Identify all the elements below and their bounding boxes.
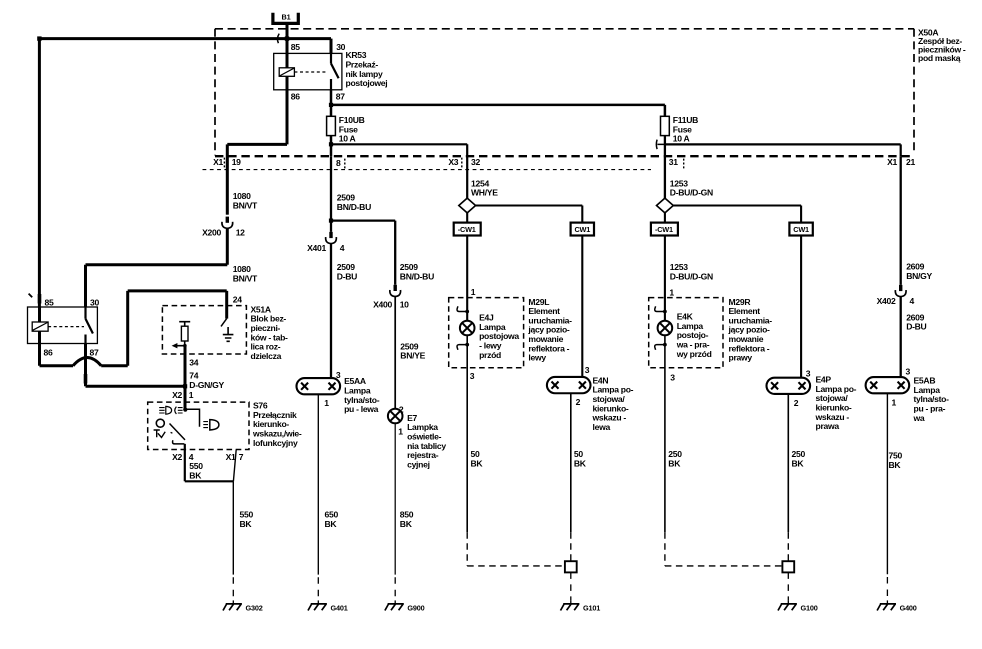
svg-text:G900: G900	[407, 604, 424, 613]
ground G900	[385, 604, 425, 613]
connector CW1 (left)	[571, 223, 594, 236]
svg-text:550BK: 550BK	[240, 510, 254, 529]
lamp E4K parking front right	[655, 306, 712, 382]
svg-text:85: 85	[291, 42, 300, 52]
svg-text:21: 21	[906, 157, 915, 167]
svg-text:1253D-BU/D-GN: 1253D-BU/D-GN	[670, 262, 713, 281]
tap hook at F11UB output	[656, 140, 665, 150]
svg-text:KR53Przekaź-nik lampypostojowe: KR53Przekaź-nik lampypostojowej	[346, 50, 388, 88]
svg-text:1: 1	[189, 390, 194, 400]
svg-text:S76Przełącznikkierunko-wskazu,: S76Przełącznikkierunko-wskazu,/wie-lofun…	[252, 401, 302, 448]
svg-text:2: 2	[794, 398, 799, 408]
svg-text:74D-GN/GY: 74D-GN/GY	[189, 371, 224, 390]
wire 2609 BN/GY X1/21 to X402	[901, 156, 933, 285]
boundary pin label X1 19	[213, 157, 241, 169]
connector -CW1 (right)	[651, 213, 678, 236]
wire: left relay 87 to circuit 74 node	[86, 344, 186, 387]
wire 250 BK E4P to G100	[788, 394, 805, 561]
wire circuit 74 D-GN/GY X51A pin 34 to S76	[172, 346, 224, 410]
svg-text:X1: X1	[226, 452, 236, 462]
svg-text:1080BN/VT: 1080BN/VT	[233, 264, 258, 283]
svg-text:X2: X2	[172, 390, 182, 400]
tick mark left of pin 85	[29, 294, 33, 298]
svg-text:86: 86	[291, 92, 300, 102]
wire 850 BK E7 to G900	[395, 423, 414, 604]
module M29R headlamp levelling right	[649, 297, 773, 368]
ground G100	[778, 572, 818, 612]
svg-text:550BK: 550BK	[189, 461, 203, 480]
lamp E5AA tail/stop left	[297, 376, 380, 414]
svg-text:250BK: 250BK	[668, 449, 682, 468]
svg-text:E4JLampapostojowa- lewyprzód: E4JLampapostojowa- lewyprzód	[479, 313, 519, 360]
svg-text:2609BN/GY: 2609BN/GY	[906, 262, 932, 281]
relay (parking lamp relay, left)	[28, 297, 100, 357]
svg-text:X50AZespół bez-pieczników -pod: X50AZespół bez-pieczników -pod maską	[918, 27, 966, 63]
lamp E4J parking front left	[457, 306, 519, 381]
lamp E7 licence plate light	[388, 409, 446, 470]
svg-text:19: 19	[232, 157, 241, 167]
wire 2609 D-BU X402 to E5AB	[901, 297, 927, 377]
wire: left relay 86 to X51A pin 24 (hops over 87)	[40, 291, 227, 366]
svg-text:E4NLampa po-stojowa/kierunko-w: E4NLampa po-stojowa/kierunko-wskazu -lew…	[592, 375, 634, 432]
svg-text:2509BN/YE: 2509BN/YE	[400, 341, 425, 360]
svg-text:F11UBFuse10 A: F11UBFuse10 A	[673, 115, 698, 144]
svg-text:30: 30	[336, 42, 345, 52]
svg-text:1254WH/YE: 1254WH/YE	[471, 178, 498, 197]
lamp E4P parking/turn right	[767, 375, 857, 432]
svg-text:86: 86	[44, 347, 53, 357]
svg-text:1: 1	[892, 397, 897, 407]
junction: 87 bus node	[329, 103, 333, 107]
svg-text:31: 31	[669, 157, 678, 167]
wire 2509 D-BU X401 to E5AA	[331, 244, 357, 380]
wire 750 BK E5AB to G400	[887, 393, 902, 604]
lamp E5AB tail/stop right	[866, 376, 950, 423]
svg-text:X400: X400	[373, 299, 392, 309]
svg-text:1: 1	[669, 287, 674, 297]
svg-text:3: 3	[585, 365, 590, 375]
wire 1253 D-BU/D-GN -CW1 to E4K pin 1	[665, 236, 713, 321]
svg-text:250BK: 250BK	[792, 449, 806, 468]
junction: B1 bus node	[285, 36, 289, 40]
svg-text:B1: B1	[282, 13, 291, 22]
wire: KR53 pin 86 to X1 pin 19	[227, 90, 287, 215]
fuse F11UB	[661, 115, 699, 144]
wire: F11UB output with branch to X1/21	[665, 136, 901, 199]
svg-text:G400: G400	[900, 604, 917, 613]
boundary pin label X3 32	[448, 157, 480, 169]
connector CW1 (right)	[789, 223, 812, 236]
svg-text:1: 1	[471, 287, 476, 297]
splice diamond (left)	[459, 198, 476, 213]
svg-text:34: 34	[189, 357, 198, 367]
svg-text:G401: G401	[331, 604, 348, 613]
connector stub at left relay pin 85	[38, 294, 42, 304]
connector X400	[373, 285, 409, 309]
switch S76 (turn signal/multifunction)	[148, 401, 302, 450]
svg-text:E4KLampapostojo-wa - pra-wy pr: E4KLampapostojo-wa - pra-wy przód	[676, 312, 712, 359]
splice square G101	[565, 561, 577, 572]
svg-text:G302: G302	[246, 604, 263, 613]
ground G400	[877, 604, 917, 613]
svg-text:E7Lampkaoświetle-nia tablicyre: E7Lampkaoświetle-nia tablicyrejestra-cyj…	[407, 413, 446, 470]
wire CW1 to E4P pin 3	[801, 236, 811, 379]
svg-text:3: 3	[470, 371, 475, 381]
svg-text:G101: G101	[583, 604, 600, 613]
connector hook on B1 bus	[277, 34, 279, 44]
svg-text:F10UBFuse10 A: F10UBFuse10 A	[339, 115, 365, 144]
wire 1080 BN/VT X200 to left relay pin 30	[86, 228, 259, 307]
wire 250 BK E4K to G100 jog	[665, 335, 783, 566]
svg-text:X1: X1	[213, 157, 223, 167]
svg-text:X3: X3	[448, 157, 458, 167]
svg-text:30: 30	[90, 297, 99, 307]
svg-text:X1: X1	[887, 157, 897, 167]
svg-text:X2: X2	[172, 452, 182, 462]
svg-text:X200: X200	[202, 227, 221, 237]
svg-text:32: 32	[471, 157, 480, 167]
fuse block X51A	[162, 295, 288, 361]
wire 650 BK E5AA to G401	[318, 394, 338, 604]
svg-text:87: 87	[90, 347, 99, 357]
junction: circuit 74 node	[183, 384, 187, 388]
connector stub on 87 wire	[84, 374, 88, 384]
svg-text:3: 3	[806, 368, 811, 378]
wire: F10UB output with branch to X3/32	[331, 136, 467, 221]
wire CW1 to E4N pin 3	[582, 236, 590, 378]
svg-text:-CW1: -CW1	[458, 225, 476, 234]
svg-text:650BK: 650BK	[325, 510, 339, 529]
svg-text:3: 3	[906, 367, 911, 377]
connector -CW1 (left)	[454, 213, 481, 236]
connector X200	[202, 217, 245, 238]
svg-text:50BK: 50BK	[471, 449, 484, 468]
wire -CW1 to E4J pin 1	[467, 236, 476, 321]
svg-text:1: 1	[324, 398, 329, 408]
svg-text:M29LElementuruchamia-jący pozi: M29LElementuruchamia-jący pozio-mowanier…	[527, 297, 572, 363]
ground G401	[308, 604, 348, 613]
svg-text:87: 87	[336, 92, 345, 102]
svg-text:2609D-BU: 2609D-BU	[906, 312, 926, 331]
svg-text:1: 1	[398, 427, 403, 437]
connector X402	[877, 285, 915, 306]
svg-text:1253D-BU/D-GN: 1253D-BU/D-GN	[670, 178, 713, 197]
svg-text:G100: G100	[801, 604, 818, 613]
relay KR53	[274, 42, 388, 102]
battery feed B1	[273, 13, 298, 24]
svg-text:8: 8	[336, 158, 341, 168]
svg-text:E5AALampatylna/sto-pu - lewa: E5AALampatylna/sto-pu - lewa	[344, 376, 380, 414]
wire 550 BK S76 X2/4 with X1/7 merge to G302	[172, 444, 253, 604]
wire: KR53 pin 87 feed bus	[331, 90, 665, 117]
junction: F10UB branch node	[329, 142, 333, 146]
lamp E4N parking/turn left	[547, 375, 634, 432]
ground G302	[223, 604, 263, 613]
svg-text:4: 4	[340, 243, 345, 253]
svg-text:X401: X401	[307, 243, 326, 253]
module M29L headlamp levelling left	[449, 297, 572, 368]
svg-text:CW1: CW1	[574, 225, 590, 234]
wire: B1 feed bus	[39, 25, 331, 307]
svg-text:4: 4	[910, 296, 915, 306]
svg-text:X51ABlok bez-pieczni-ków - tab: X51ABlok bez-pieczni-ków - tab-lica roz-…	[251, 304, 289, 361]
boundary pin label 8	[336, 158, 345, 170]
fuse box X50A boundary	[215, 29, 914, 156]
fuse F10UB	[327, 115, 365, 144]
connector strip line	[203, 169, 652, 171]
boundary pin label 31	[669, 157, 684, 170]
svg-text:24: 24	[233, 295, 242, 305]
splice diamond (right)	[657, 198, 674, 213]
wire 2509 BN/D-BU pin 8 to X401 with branch	[331, 193, 395, 232]
svg-text:-CW1: -CW1	[655, 225, 673, 234]
svg-text:2509BN/D-BU: 2509BN/D-BU	[400, 262, 434, 281]
svg-text:7: 7	[239, 452, 244, 462]
ground G101	[561, 572, 601, 612]
svg-text:850BK: 850BK	[400, 510, 414, 529]
svg-text:50BK: 50BK	[574, 449, 587, 468]
splice square G100	[782, 561, 794, 572]
svg-text:E5ABLampatylna/sto-pu - pra-wa: E5ABLampatylna/sto-pu - pra-wa	[913, 376, 950, 423]
svg-text:X402: X402	[877, 296, 896, 306]
svg-text:3: 3	[670, 373, 675, 383]
junction: feed bus left corner node	[37, 36, 41, 40]
wire 50 BK E4N to G101	[571, 393, 587, 561]
wire 50 BK E4J to G101 jog	[467, 335, 565, 566]
svg-text:750BK: 750BK	[889, 451, 903, 470]
svg-text:10: 10	[400, 299, 409, 309]
boundary pin label X1 21	[887, 157, 915, 167]
svg-text:2509D-BU: 2509D-BU	[337, 262, 357, 281]
junction: 2509 branch node	[329, 219, 333, 223]
wire 2509 BN/YE X400 to E7	[395, 297, 425, 415]
wire 2509 BN/D-BU branch to X400	[395, 221, 434, 285]
wire splice branch to CW1 (left pair)	[476, 206, 583, 223]
connector X401	[307, 232, 345, 253]
svg-text:CW1: CW1	[793, 225, 809, 234]
svg-text:2: 2	[576, 397, 581, 407]
svg-text:12: 12	[236, 227, 245, 237]
svg-text:E4PLampa po-stojowa/kierunko-w: E4PLampa po-stojowa/kierunko-wskazu -pra…	[815, 375, 857, 432]
svg-text:2509BN/D-BU: 2509BN/D-BU	[337, 193, 371, 212]
wire splice branch to CW1 (right pair)	[673, 206, 801, 223]
svg-text:1080BN/VT: 1080BN/VT	[233, 191, 258, 210]
svg-text:M29RElementuruchamia-jący pozi: M29RElementuruchamia-jący pozio-mowanier…	[728, 297, 773, 363]
wire 1080 BN/VT X1/19 to X200	[227, 156, 258, 214]
svg-text:85: 85	[45, 297, 54, 307]
